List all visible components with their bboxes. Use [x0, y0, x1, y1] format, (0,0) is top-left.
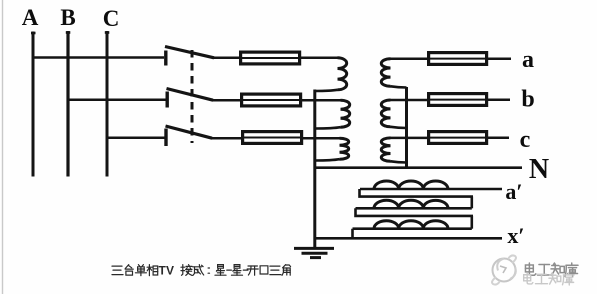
aux winding d2 top line: [356, 207, 472, 210]
aux winding d3 top line: [353, 227, 472, 230]
aux winding d1 lead to terminal a-prime: [360, 188, 502, 191]
svg-text:C: C: [103, 6, 120, 31]
watermark logo: [492, 255, 516, 284]
switch QS pole 1 blade: [165, 47, 214, 58]
secondary winding w3 top wire to fuse FU6: [391, 137, 429, 140]
svg-text:A: A: [22, 5, 39, 30]
bus C vertical: [106, 31, 109, 177]
wire FU5 to terminal b: [488, 99, 511, 102]
bus A vertical: [32, 32, 35, 177]
aux winding d1 coil: [374, 181, 448, 189]
aux winding d3 return / x-prime lead: [315, 229, 502, 239]
svg-text:B: B: [60, 5, 75, 30]
svg-text:TV: TV: [159, 264, 175, 278]
primary star point / earth bus: [313, 90, 316, 249]
caption text part 1: 三台单相: [112, 265, 158, 276]
wire W3 bottom to star bus: [315, 159, 340, 160]
bus B vertical: [66, 31, 69, 177]
wire QS2 to fuse FU2 and primary W2 top: [212, 99, 341, 102]
watermark text 电工知库 (dark): [525, 263, 578, 277]
aux winding d1 return line: [360, 189, 474, 197]
ground symbol: [294, 248, 334, 257]
svg-text:x′: x′: [507, 223, 524, 248]
scan edge line: [2, 0, 4, 294]
wire FU6 to terminal c: [488, 137, 510, 140]
fuse FU3: [243, 132, 302, 144]
wire W2 bottom to star bus: [315, 127, 341, 128]
fuse FU5: [429, 94, 487, 106]
fuse FU1: [241, 52, 300, 64]
watermark text 电工知库 (light copy): [524, 273, 574, 285]
primary winding W2 (phase B): [341, 100, 350, 127]
link d2 to d3: [470, 216, 473, 229]
primary winding W3 (phase C): [340, 138, 349, 159]
svg-text:b: b: [521, 87, 534, 113]
switch QS pole 2 blade: [167, 89, 214, 101]
secondary winding w1 (phase a): [381, 59, 390, 86]
aux winding d3 coil: [374, 221, 448, 229]
caption text part 2: 接成：星-星-开口三角: [181, 265, 291, 276]
wire w3 bottom to secondary star bus: [391, 161, 407, 162]
wire QS1 to fuse FU1 and primary W1 top: [213, 57, 338, 60]
svg-text:a: a: [522, 47, 534, 73]
aux winding d2 return line: [356, 208, 474, 216]
wire FU4 to terminal a: [488, 58, 512, 61]
fuse FU2: [242, 94, 301, 106]
wire phase B to switch QS2: [67, 98, 167, 101]
wire phase C to switch QS3: [106, 137, 166, 140]
link d1 to d2: [470, 197, 473, 209]
neutral wire N: [315, 166, 522, 169]
switch QS pole 1 fixed contact: [164, 51, 167, 66]
wire w1 bottom to secondary star bus: [391, 86, 407, 87]
fuse FU6: [429, 132, 487, 144]
wire w2 bottom to secondary star bus: [391, 127, 407, 128]
fuse FU4: [429, 53, 487, 65]
secondary star bus: [405, 87, 408, 168]
secondary winding w1 top wire to fuse FU4: [391, 58, 429, 61]
switch QS pole 3 fixed contact: [164, 129, 167, 147]
aux winding d2 coil: [374, 200, 448, 208]
wire phase A to switch QS1: [32, 56, 165, 59]
primary winding W1 (phase A): [338, 58, 347, 90]
svg-text:N: N: [529, 154, 549, 185]
switch QS pole 2 fixed contact: [165, 92, 168, 108]
switch QS linkage (dashed): [191, 50, 194, 143]
wire QS3 to fuse FU3 and primary W3 top: [211, 137, 340, 140]
svg-text:a′: a′: [505, 179, 522, 204]
switch QS pole 3 blade: [166, 126, 213, 138]
wire W1 bottom to star bus: [315, 90, 338, 91]
secondary winding w3 (phase c): [381, 138, 390, 161]
secondary winding w2 top wire to fuse FU5: [391, 99, 429, 102]
svg-text:c: c: [520, 127, 531, 153]
secondary winding w2 (phase b): [381, 100, 390, 127]
